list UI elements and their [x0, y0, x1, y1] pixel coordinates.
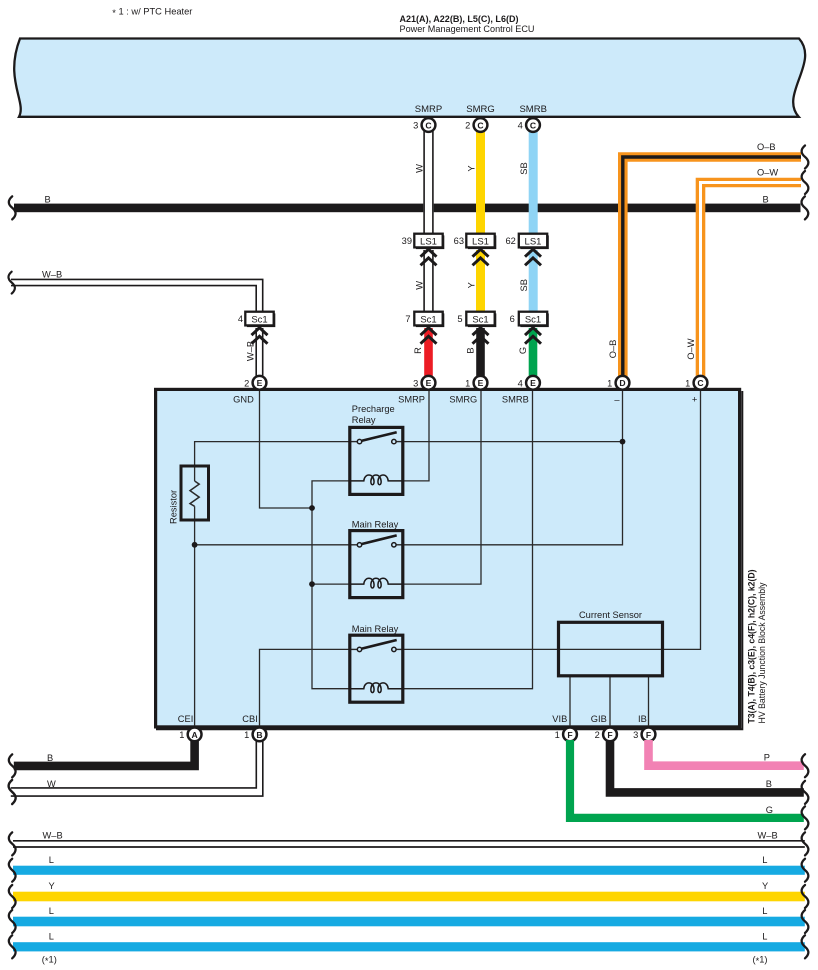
svg-text:C: C	[697, 378, 703, 388]
connector 3 E	[422, 376, 436, 390]
svg-text:L: L	[49, 906, 54, 916]
break symbol right of wire O-B	[802, 146, 809, 169]
svg-text:Current Sensor: Current Sensor	[579, 610, 642, 620]
node GND-coil junction	[309, 505, 315, 511]
current sensor	[559, 622, 663, 676]
wire SMRB internal to main relay 2 coil	[403, 390, 533, 689]
svg-text:SB: SB	[519, 279, 529, 291]
resistor	[181, 466, 209, 520]
svg-text:Relay: Relay	[352, 415, 376, 425]
node precharge-minus junction	[620, 439, 626, 445]
svg-text:L: L	[762, 906, 767, 916]
svg-text:SMRP: SMRP	[415, 104, 442, 115]
svg-text:F: F	[607, 730, 612, 740]
splice 39 LS1	[402, 234, 445, 249]
chevrons under Sc1 6	[525, 328, 541, 344]
wire W from connector B	[11, 740, 256, 788]
svg-text:W–B: W–B	[43, 830, 63, 840]
svg-text:LS1: LS1	[420, 236, 437, 247]
svg-text:3: 3	[413, 378, 418, 388]
break symbol left of wire B	[9, 754, 16, 777]
svg-text:Power Management Control ECU: Power Management Control ECU	[400, 24, 535, 35]
wire main relay 1 coil left	[312, 583, 350, 585]
svg-text:L: L	[49, 855, 54, 865]
wire B from connector A	[14, 740, 195, 766]
svg-text:O–W: O–W	[757, 168, 778, 178]
svg-text:4: 4	[518, 121, 523, 131]
svg-text:SMRG: SMRG	[449, 394, 477, 404]
svg-text:Sc1: Sc1	[251, 314, 267, 325]
wire W (LS1 to Sc1)	[423, 250, 433, 312]
svg-text:LS1: LS1	[472, 236, 489, 247]
svg-text:5: 5	[457, 314, 462, 324]
relay U3 Main Relay	[350, 635, 403, 702]
wire GND internal	[260, 390, 313, 508]
wire GIB internal	[609, 676, 611, 726]
connector 4 C	[526, 118, 540, 132]
svg-text:4: 4	[238, 314, 243, 324]
wire R (Sc1 to SMRP pin)	[424, 328, 433, 377]
wire G from connector 1F	[570, 740, 804, 818]
svg-text:SMRB: SMRB	[519, 104, 546, 115]
svg-text:63: 63	[454, 236, 464, 246]
chevrons under LS1 63	[473, 249, 489, 265]
svg-text:E: E	[257, 378, 263, 388]
wire precharge switch left to resistor top	[195, 442, 350, 481]
wire SB (ECU to LS1)	[529, 130, 538, 234]
wire W-B (left branch)	[11, 279, 263, 311]
svg-text:A: A	[191, 730, 197, 740]
svg-text:B: B	[465, 347, 475, 353]
svg-text:Main Relay: Main Relay	[352, 519, 399, 529]
splice 6 Sc1	[510, 312, 549, 327]
svg-text:W–B: W–B	[758, 830, 778, 840]
connector 3 C	[422, 118, 436, 132]
svg-text:39: 39	[402, 236, 412, 246]
svg-text:G: G	[766, 805, 773, 815]
chevrons under Sc1 7	[421, 328, 437, 344]
wire W-B bus	[13, 841, 805, 847]
wire Y bus	[13, 892, 805, 902]
svg-text:1: 1	[607, 378, 612, 388]
svg-text:2: 2	[595, 730, 600, 740]
svg-text:LS1: LS1	[525, 236, 542, 247]
connector 1 D	[616, 376, 630, 390]
break symbol left of wire W-B	[8, 272, 14, 294]
svg-text:+: +	[692, 394, 697, 404]
wire SMRG internal to main relay 1 coil	[403, 390, 481, 584]
svg-text:O–B: O–B	[608, 340, 618, 359]
chevrons under LS1 39	[421, 249, 437, 265]
wire W-B (Sc1 to GND pin)	[255, 328, 263, 377]
svg-text:1: 1	[685, 378, 690, 388]
svg-text:B: B	[47, 753, 53, 763]
svg-text:4: 4	[518, 378, 523, 388]
svg-text:SB: SB	[519, 162, 529, 174]
wire O-B (orange/black)	[623, 157, 801, 377]
splice 62 LS1	[505, 234, 548, 249]
svg-text:SMRG: SMRG	[466, 104, 495, 115]
svg-text:B: B	[45, 195, 51, 205]
svg-text:O–W: O–W	[686, 338, 696, 359]
svg-text:7: 7	[405, 314, 410, 324]
wire coil ground bus	[312, 481, 350, 689]
wire G (Sc1 to SMRB pin)	[529, 328, 538, 377]
break symbol left of wire W	[9, 780, 16, 804]
wire O-W (orange/white)	[701, 183, 802, 378]
svg-text:1: 1	[179, 730, 184, 740]
wire SB (LS1 to Sc1)	[529, 250, 538, 312]
svg-text:L: L	[49, 932, 54, 942]
svg-text:Resistor: Resistor	[169, 490, 179, 524]
svg-text:B: B	[256, 730, 262, 740]
svg-text:W–B: W–B	[245, 341, 255, 361]
wire L bus 3	[13, 942, 805, 951]
break symbol right of wire B	[802, 781, 809, 804]
svg-text:HV Battery Junction Block Asse: HV Battery Junction Block Assembly	[757, 582, 767, 723]
wire resistor lead and zigzag	[190, 481, 199, 506]
svg-text:W: W	[414, 281, 424, 290]
svg-text:L: L	[762, 932, 767, 942]
svg-text:–: –	[614, 394, 620, 404]
svg-text:Y: Y	[466, 165, 476, 171]
svg-text:1: 1	[244, 730, 249, 740]
Power Management Control ECU band	[14, 39, 805, 117]
svg-text:C: C	[425, 120, 431, 130]
svg-text:(*1): (*1)	[753, 954, 768, 966]
svg-text:G: G	[518, 347, 528, 354]
svg-text:Y: Y	[466, 282, 476, 288]
break symbol right of wire P	[802, 754, 809, 777]
svg-text:3: 3	[413, 121, 418, 131]
svg-text:C: C	[530, 120, 536, 130]
svg-text:6: 6	[510, 314, 515, 324]
wire L bus 1	[13, 866, 805, 875]
relay U2 Main Relay	[350, 531, 403, 598]
svg-text:62: 62	[505, 236, 515, 246]
svg-text:Sc1: Sc1	[525, 314, 541, 325]
connector 2 C	[474, 118, 488, 132]
svg-text:2: 2	[465, 121, 470, 131]
chevrons under Sc1 4	[252, 328, 268, 344]
svg-text:W: W	[414, 164, 424, 173]
break symbol right of wire G	[802, 806, 809, 829]
connector 4 E	[526, 376, 540, 390]
break symbol left of wire B	[9, 196, 16, 219]
HV Battery Junction Block Assembly box	[156, 391, 742, 729]
svg-text:IB: IB	[638, 714, 647, 724]
wire IB internal	[648, 676, 650, 726]
wire Y (ECU to LS1)	[476, 130, 485, 234]
svg-text:B: B	[763, 195, 769, 205]
svg-text:CEI: CEI	[178, 714, 194, 724]
svg-text:CBI: CBI	[242, 714, 258, 724]
wire main relay 1 switch left	[195, 544, 350, 546]
svg-text:GND: GND	[233, 394, 254, 404]
break symbol right of wire B	[802, 196, 809, 219]
connector 1 C	[694, 376, 708, 390]
connector 2 E	[253, 376, 267, 390]
wire CBI internal to main relay 2 switch	[260, 649, 351, 726]
svg-text:E: E	[478, 378, 484, 388]
svg-text:SMRB: SMRB	[502, 394, 529, 404]
svg-text:W–B: W–B	[42, 269, 62, 279]
wire VIB internal	[569, 676, 571, 726]
svg-text:W: W	[47, 779, 56, 789]
relay U1 Precharge Relay	[350, 427, 403, 494]
svg-text:1: 1	[555, 730, 560, 740]
svg-text:F: F	[646, 730, 651, 740]
connector 1 F	[563, 728, 577, 742]
svg-text:D: D	[619, 378, 625, 388]
splice 63 LS1	[454, 234, 497, 249]
svg-text:Y: Y	[49, 881, 55, 891]
svg-text:VIB: VIB	[552, 714, 567, 724]
wire minus internal to main relay 1 switch	[403, 390, 623, 545]
svg-text:Sc1: Sc1	[472, 314, 488, 325]
wire B 12V bus (top)	[14, 204, 801, 213]
wire P from connector 3F	[649, 740, 804, 766]
svg-text:3: 3	[633, 730, 638, 740]
wire Y (LS1 to Sc1)	[476, 250, 485, 312]
svg-text:P: P	[764, 752, 770, 762]
svg-text:2: 2	[244, 378, 249, 388]
svg-text:Main Relay: Main Relay	[352, 624, 399, 634]
svg-text:C: C	[477, 120, 483, 130]
node CEI-switch junction	[192, 542, 198, 548]
svg-text:T3(A), T4(B), c3(E), c4(F), h2: T3(A), T4(B), c3(E), c4(F), h2(C), k2(D)	[746, 570, 756, 724]
chevrons under Sc1 5	[473, 328, 489, 344]
svg-text:E: E	[426, 378, 432, 388]
connector 1 E	[474, 376, 488, 390]
connector 2 F	[603, 728, 617, 742]
svg-text:L: L	[762, 855, 767, 865]
connector 1 B	[253, 728, 267, 742]
svg-text:SMRP: SMRP	[398, 394, 425, 404]
wire W (ECU to LS1)	[423, 130, 433, 234]
splice 7 Sc1	[405, 312, 444, 327]
svg-text:F: F	[567, 730, 572, 740]
svg-text:Y: Y	[762, 881, 768, 891]
wire B (Sc1 to SMRG pin)	[476, 328, 485, 377]
wire B from connector 2F	[610, 740, 804, 792]
svg-text:GIB: GIB	[591, 714, 607, 724]
wire SMRP internal to precharge coil	[403, 390, 429, 481]
svg-text:(*1): (*1)	[42, 954, 57, 966]
svg-text:Sc1: Sc1	[420, 314, 436, 325]
connector 1 A	[188, 728, 202, 742]
wire precharge switch to minus node	[403, 441, 623, 443]
chevrons under LS1 62	[525, 249, 541, 265]
svg-text:* 1 : w/ PTC Heater: * 1 : w/ PTC Heater	[112, 6, 192, 18]
svg-text:O–B: O–B	[757, 142, 776, 152]
svg-text:1: 1	[465, 378, 470, 388]
splice 5 Sc1	[457, 312, 496, 327]
wire CEI internal from resistor bottom	[194, 506, 196, 726]
wire plus internal to main relay 2 switch through current sensor	[403, 390, 701, 649]
svg-text:R: R	[413, 347, 423, 354]
connector 3 F	[642, 728, 656, 742]
svg-text:B: B	[766, 779, 772, 789]
splice 4 Sc1	[238, 312, 275, 327]
wire L bus 2	[13, 917, 805, 927]
svg-text:E: E	[530, 378, 536, 388]
svg-text:Precharge: Precharge	[352, 404, 395, 414]
break symbol right of wire O-W	[802, 171, 809, 194]
node coil bus junction	[309, 581, 315, 587]
